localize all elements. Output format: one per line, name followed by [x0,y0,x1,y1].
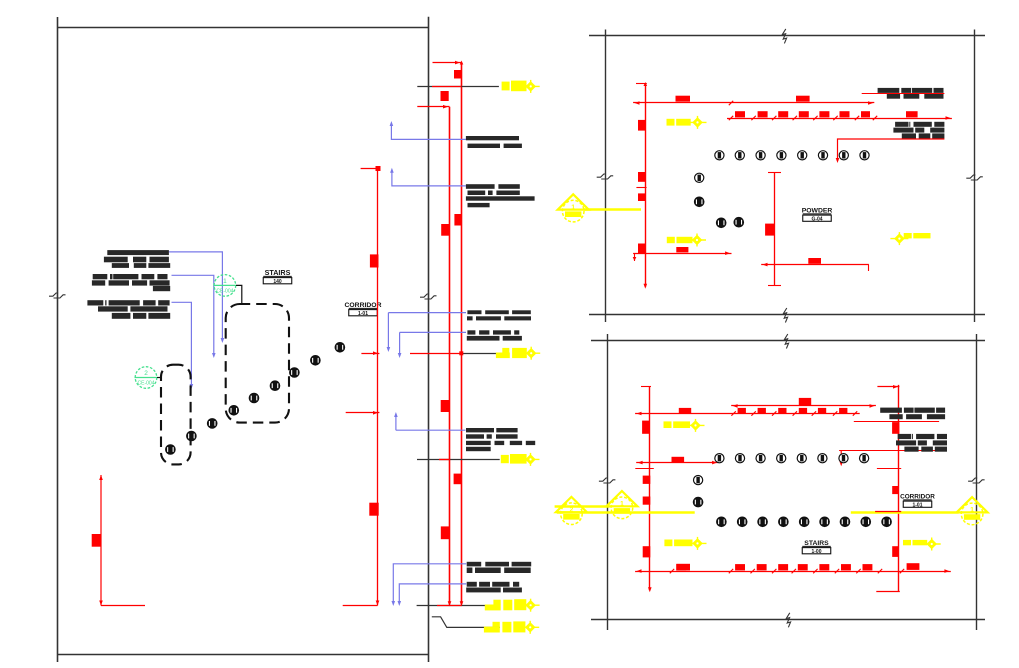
section line yellow box2 left [557,511,695,514]
wall line top frame horizontal [58,27,429,29]
break mark box2 right [968,478,985,483]
callout jog line y627 [432,617,500,628]
dim arrow [733,404,738,408]
leader line blue y139 [391,123,466,139]
fixture circle box2 row1-1 [715,454,724,463]
dim arrow [373,411,378,415]
red leader short vertical [840,450,842,464]
tick [768,285,781,287]
detail box 2 right frame [976,334,978,630]
spec text block P5 [466,428,535,451]
red tick y106 [417,106,449,108]
keynote yellow y86 target [522,80,540,93]
leader line blue y186 [392,170,466,186]
dim tick slash [729,101,733,105]
wall line left frame vertical [57,17,59,662]
dim tick slash [873,116,877,120]
red tick y168 [361,168,380,170]
spec text block T4 [896,434,947,452]
fixture circle box2 row2-4 [779,517,789,527]
dim tick slash [670,569,674,573]
red marker rect [676,564,690,571]
room label CORRIDOR 1-01 [344,302,381,317]
riser B bottom arrow [460,601,464,606]
tick arrow [455,61,460,65]
keynote yellow box2 c target [923,538,941,551]
detail box 1 top frame [589,35,985,37]
leader C arrowhead [190,384,194,389]
keynote yellow y353 target [522,347,540,360]
dim tick slash [813,569,817,573]
dim tick slash [878,569,882,573]
red marker square [676,564,686,570]
red riser line B [461,63,463,605]
fixture circle box2 row2-3 [758,517,768,527]
keynote yellow box1 b [667,237,693,243]
detail box 2 bottom frame [591,619,985,621]
keynote yellow box2 c [903,540,927,545]
red marker square [757,564,767,570]
red marker square [799,111,809,117]
keynote yellow box2 b target [689,537,707,550]
red line through T1 [862,93,945,95]
svg-text:1: 1 [970,507,974,514]
stair fixture circle 9 [335,343,345,353]
dim tick slash [772,569,776,573]
dim arrow [638,461,643,465]
dim tick slash [729,116,733,120]
red tick y86 [432,86,462,88]
red riser line A [449,107,451,605]
red marker square [638,172,645,182]
dim arrow [637,412,642,416]
section line yellow box2 right [851,511,959,514]
spec text block T3 [880,408,945,420]
red marker square [861,111,870,117]
red marker square [765,224,774,236]
keynote yellow y627 target [521,621,539,634]
callout line y605 [417,605,500,607]
red marker rect [799,398,811,405]
dim arrow [376,601,380,606]
red marker square [738,408,746,413]
red wall segment vertical [774,173,776,286]
dimension line y413 [635,413,860,415]
red marker square [892,486,899,494]
fixture circle row1-2 [735,151,744,160]
leader line blue y584 [399,584,466,604]
leader arrowhead [394,412,398,417]
leader A arrowhead [221,338,225,343]
red wall line box2 left [649,387,651,590]
svg-text:1: 1 [571,204,575,211]
fixture circle pair1 [716,218,726,228]
red marker square [735,564,745,570]
red marker square [638,193,645,201]
dim end arrow [633,257,637,261]
svg-text:1: 1 [223,278,227,285]
red marker rect [676,96,691,102]
dimension line y406 [731,405,876,407]
detail tag CE-004 no.2 [135,367,158,389]
red marker square [778,408,786,413]
leader arrowhead [387,347,391,352]
spec text block P4 [467,330,522,340]
dim arrow [712,461,717,465]
svg-text:CE-004: CE-004 [138,381,155,387]
note text block B [92,274,170,291]
dimension line y253 [633,253,731,255]
detail box 1 left frame [605,30,607,323]
tick [641,386,651,388]
stair fixture circle 7 [290,368,300,378]
leader arrowhead [390,168,394,173]
spec text block P2 [466,184,535,207]
red marker rect [676,247,688,252]
keynote yellow box2 a [664,421,691,428]
red marker square [839,408,847,413]
room label STAIRS 1-00 [802,540,831,555]
wall arrow [644,284,648,289]
svg-text:140: 140 [273,279,282,285]
riser A bottom arrow [448,601,452,606]
wall line right frame vertical [428,17,430,662]
room label POWDER G-04 [802,208,833,223]
fixture circle row1-8 [860,151,869,160]
spec text block P3 [467,310,531,320]
dimension line red left L [101,475,145,606]
svg-text:1-00: 1-00 [811,549,821,555]
detail tag CE-004 no.1 [213,275,236,297]
dim tick slash [792,569,796,573]
callout line y86 [417,86,499,88]
fixture circle box2 row1-7 [839,454,848,463]
red marker square [638,244,645,254]
red marker rect [808,258,821,264]
fixture circle box2 row1-5 [797,454,806,463]
dim arrow [635,101,640,105]
tick [768,172,781,174]
red marker square [778,564,788,570]
leader arrowhead [398,601,402,606]
detail box 2 left frame [607,334,609,630]
note text block A [104,250,170,268]
red marker square [819,564,829,570]
stair fixture circle 4 [229,406,239,416]
dimension line y118 [727,118,952,120]
stair outline dashed capsule large [226,304,289,423]
svg-text:2: 2 [570,506,574,513]
red tick y353 [410,353,462,355]
dim tick slash [751,116,755,120]
red marker square [638,120,645,131]
dim tick slash [772,411,776,415]
fixture circle row1-3 [756,151,765,160]
dimension tick red y353 [361,353,379,355]
fixture circle box2 row1-6 [818,454,827,463]
detail box 1 bottom frame [589,314,985,316]
red tick y62 [433,62,462,64]
spec text block P1 [466,136,522,148]
red marker square [758,408,766,413]
stair fixture circle 1 [166,445,176,455]
keynote yellow box1 c [904,233,931,238]
dim arrow [763,263,768,267]
red line y421 [854,421,939,423]
fixture circle box2 row2-6 [820,517,830,527]
dimension line y103 [633,102,874,104]
fixture circle box2 row1-3 [756,454,765,463]
red tick y605 [437,605,462,607]
dim tick slash [793,116,797,120]
fixture circle box2 row2-9 [882,517,892,527]
spec text block T2 [893,122,944,139]
red marker square [799,408,807,413]
red marker square [643,476,651,484]
dim tick slash [813,116,817,120]
dim tick slash [812,411,816,415]
section line yellow [584,208,641,211]
break mark box1 left [597,174,614,179]
red marker square [441,526,450,539]
tick [636,83,647,85]
break mark box2 bottom [786,613,790,628]
spec text block P6 [467,562,532,573]
red wall line box1 left [645,84,647,287]
note text block C [87,300,170,319]
dim arrow [944,569,949,573]
section marker 1 box2 [606,491,637,519]
tick arrow [893,385,898,389]
dim tick slash [751,411,755,415]
red marker square [92,534,101,547]
break mark box1 top [782,29,786,44]
section line yellow box2 left upper [555,505,610,508]
fixture circle box2 row1-8 [860,454,869,463]
leader line blue y312 [388,313,466,350]
detail box 1 right frame [974,30,976,323]
dim tick slash [855,116,859,120]
red marker square [798,564,808,570]
connector from tag 2 to stair [157,377,162,379]
break mark left frame [49,293,66,298]
detail box 2 top frame [591,340,985,342]
red marker rect [796,96,810,102]
red marker square [369,503,378,516]
wall top arrow [644,82,648,86]
red line y451 [839,450,944,452]
red marker square [841,564,851,570]
dim tick slash [793,411,797,415]
red tick y459 [439,459,450,461]
break mark box2 left [599,478,616,483]
red marker rect [907,563,920,570]
stair outline dashed capsule small [161,365,191,465]
red marker square [892,422,899,434]
stair fixture circle 8 [311,356,321,366]
dim tick slash [835,569,839,573]
wall line bottom frame horizontal [58,654,429,656]
stair fixture circle 2 [187,431,197,441]
fixture circle row1-7 [839,151,848,160]
section marker right box2 [957,497,988,525]
keynote yellow box1 c target [890,232,908,245]
fixture circle box2 col2 [693,497,703,507]
junction dot [376,166,381,171]
red marker square [735,111,745,117]
red marker square [441,400,450,412]
dimension line red mid L [343,169,378,606]
tick top [877,386,899,388]
dim arrow [99,475,103,480]
fixture circle pair2 [734,217,744,227]
stair fixture circle 5 [249,393,259,403]
tick arrow [443,105,448,109]
keynote yellow box2 b [664,540,692,547]
fixture circle box2 row2-1 [717,517,727,527]
keynote yellow y459 [501,454,527,464]
red marker square [454,474,462,485]
red dimension y264 [761,264,869,266]
leader line from note A [169,252,222,341]
leader line from note C [172,302,192,387]
keynote yellow box1 a target [689,116,707,129]
red marker square [643,497,651,505]
leader line from note B [172,275,214,356]
leader B arrowhead [212,353,216,358]
fixture circle row1-1 [715,151,724,160]
leader arrow [839,461,843,466]
red marker square [863,564,873,570]
callout line y353 [462,353,497,355]
red marker square [758,111,768,117]
svg-text:CE-004: CE-004 [216,288,233,294]
fixture circle row1-5 [798,151,807,160]
keynote yellow box2 a target [687,419,705,432]
leader line blue y430 [396,414,466,430]
room label CORRIDOR 1-01 box2 [900,494,935,509]
section marker 2 box2 [556,497,587,525]
wall arrow [648,587,652,592]
red marker square [892,546,899,557]
dim tick slash [772,116,776,120]
dim end tick [634,253,636,261]
break mark box1 right [966,175,983,180]
keynote yellow box1 b target [688,234,706,247]
dimension tick red y413 [346,412,380,414]
leader arrowhead [390,121,394,126]
dim arrow [373,351,378,355]
red marker square [441,91,449,101]
svg-text:1-01: 1-01 [358,311,368,317]
tick bottom [876,591,900,593]
fixture circle box2 row2-8 [861,517,871,527]
fixture circle row1-4 [777,151,786,160]
spec text block T1 [878,88,944,99]
fixture circle box2 col1 [694,476,703,485]
red marker square [840,111,850,117]
stair fixture circle 3 [207,419,217,429]
svg-text:STAIRS: STAIRS [265,268,291,277]
connector from tag 1 to stair [236,285,242,305]
keynote yellow y627 [484,621,525,632]
spec text block P7 [466,582,522,593]
red marker square [819,111,829,117]
fixture circle box2 row2-7 [840,517,850,527]
red marker square [441,224,449,236]
junction dot [459,351,463,355]
section marker 1 box1 [558,194,589,222]
red marker square [454,214,462,226]
riser B top arrow [460,61,464,65]
fixture circle box2 row1-4 [777,454,786,463]
dim tick slash [833,411,837,415]
callout line y459 [417,459,500,461]
red leader to T2 [838,139,945,161]
red tick y468 [877,468,901,470]
dim arrow [725,251,730,255]
leader arrowhead [398,353,402,358]
svg-text:1-01: 1-01 [912,502,922,508]
red marker square [778,111,788,117]
dim arrow [870,404,875,408]
red marker square [643,546,651,557]
red marker square [906,111,918,117]
dim tick slash [833,116,837,120]
dimension line y462 [636,462,718,464]
break mark right frame [420,294,437,299]
stair fixture circle 6 [270,381,280,391]
keynote yellow y605 target [522,599,540,612]
fixture circle col2 [694,197,704,207]
dim tick slash [853,411,857,415]
dim arrow [637,569,642,573]
dim arrow [99,601,103,606]
red marker square [642,421,650,434]
red tick y511 [875,511,901,513]
dim arrow [946,116,951,120]
red marker rect [672,457,685,463]
svg-text:G-04: G-04 [811,216,822,222]
break mark box1 bottom [783,308,787,323]
leader arrow [836,158,840,163]
dim tick slash [729,569,733,573]
keynote yellow y605 [485,599,527,610]
fixture circle box2 row2-5 [799,517,809,527]
keynote yellow y353 [496,348,527,358]
svg-text:2: 2 [144,370,148,377]
dim tick slash [856,569,860,573]
svg-text:1: 1 [620,501,624,508]
leader line blue y563 [393,564,466,604]
fixture circle box2 row1-2 [735,454,744,463]
dim tick slash [751,569,755,573]
keynote yellow y86 [502,81,527,92]
red marker square [370,254,379,267]
dim tick slash [731,411,735,415]
break mark box2 top [784,334,788,349]
red marker square [454,70,462,79]
keynote yellow box1 a [667,119,691,126]
dimension line y571 [635,571,951,573]
red marker square [818,408,826,413]
dim arrow [868,101,873,105]
fixture circle box2 row2-2 [737,517,747,527]
red wall line box2 right [898,385,900,592]
red marker rect [679,408,691,413]
fixture circle col1 [695,173,704,182]
tick [636,187,646,189]
